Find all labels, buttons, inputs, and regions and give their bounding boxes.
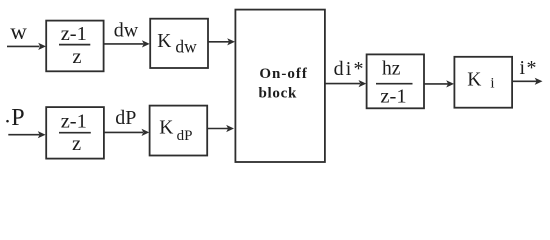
svg-text:dw: dw	[175, 37, 197, 57]
svg-text:dP: dP	[177, 128, 193, 144]
svg-text:.: .	[5, 102, 11, 127]
svg-text:i*: i*	[520, 57, 539, 79]
svg-text:K: K	[467, 69, 481, 90]
svg-text:dw: dw	[114, 20, 139, 42]
svg-text:z-1: z-1	[61, 111, 87, 133]
svg-text:P: P	[11, 105, 24, 131]
svg-text:di*: di*	[334, 58, 366, 80]
svg-text:i: i	[490, 75, 494, 91]
svg-text:z: z	[72, 133, 81, 155]
svg-text:K: K	[159, 118, 173, 139]
svg-text:On-off: On-off	[259, 66, 308, 82]
svg-text:w: w	[10, 19, 27, 44]
svg-text:K: K	[157, 31, 171, 52]
svg-text:dP: dP	[115, 107, 136, 129]
svg-text:block: block	[259, 85, 298, 101]
svg-text:z-1: z-1	[61, 23, 87, 45]
svg-text:hz: hz	[382, 59, 401, 80]
svg-text:z-1: z-1	[380, 85, 406, 107]
svg-text:z: z	[72, 46, 81, 68]
